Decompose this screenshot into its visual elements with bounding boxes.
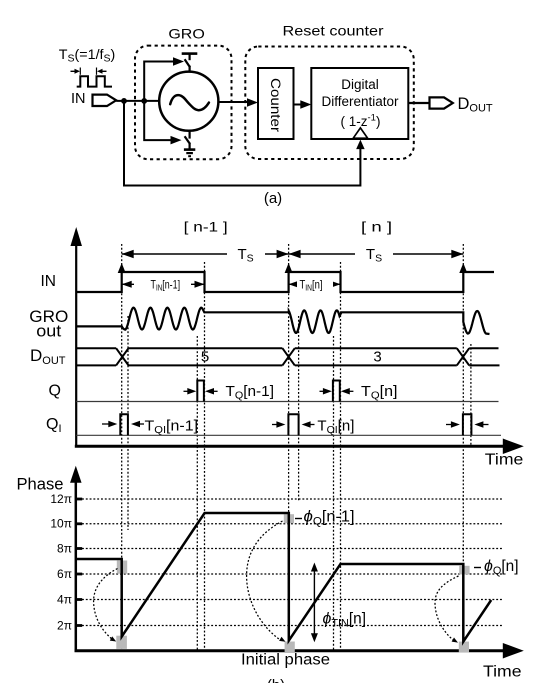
GRO oscillator circle U1 xyxy=(159,72,218,131)
svg-text:[ n-1 ]: [ n-1 ] xyxy=(184,219,228,235)
TQI[n] arrows and label xyxy=(272,418,354,437)
phiQ[n] label xyxy=(474,558,519,577)
svg-text:ϕQ[n-1]: ϕQ[n-1] xyxy=(304,509,355,528)
TQ[n-1] arrows and label xyxy=(184,383,275,402)
TS dimension arrow period n xyxy=(289,246,464,265)
GRO dashed box xyxy=(135,46,232,160)
svg-text:Phase: Phase xyxy=(17,475,64,494)
DOUT bus lines xyxy=(76,348,499,365)
supply T bar xyxy=(182,54,198,61)
svg-text:IN: IN xyxy=(41,273,57,290)
svg-text:10π: 10π xyxy=(50,517,72,531)
svg-text:ϕQ[n]: ϕQ[n] xyxy=(484,558,519,577)
IN label xyxy=(71,91,86,107)
output wire xyxy=(408,102,429,104)
TIN[n] dimension xyxy=(289,277,341,292)
svg-text:12π: 12π xyxy=(50,492,72,506)
Phase axis xyxy=(17,466,82,651)
svg-text:TQ[n-1]: TQ[n-1] xyxy=(226,383,275,402)
wire node up to top switch xyxy=(144,57,184,101)
DOUT bus crossings xyxy=(116,348,469,365)
svg-text:[ n ]: [ n ] xyxy=(361,219,392,235)
ground xyxy=(184,150,195,157)
Initial phase label xyxy=(241,652,330,669)
svg-text:3: 3 xyxy=(373,349,381,366)
node at IN (feedback tap) xyxy=(121,98,127,104)
svg-text:TQI[n-1]: TQI[n-1] xyxy=(145,418,199,437)
phase y-axis labels xyxy=(50,492,72,633)
wire node down to bottom switch xyxy=(144,101,181,144)
QI pulse n+1 arrows xyxy=(446,421,489,428)
svg-text:(a): (a) xyxy=(264,190,282,207)
svg-text:Initial phase: Initial phase xyxy=(241,652,330,669)
phase grid horizontal dotted lines xyxy=(82,499,502,626)
reset arc n-1 xyxy=(94,569,118,640)
timing y-axis xyxy=(70,227,82,446)
phase time axis xyxy=(75,643,524,681)
Reset counter label xyxy=(283,23,384,39)
DOUT label xyxy=(458,95,493,115)
IN waveform xyxy=(76,263,494,292)
svg-text:4π: 4π xyxy=(57,592,72,606)
period label [n-1] xyxy=(184,219,228,235)
svg-text:5: 5 xyxy=(201,349,209,366)
svg-text:Time: Time xyxy=(483,664,522,681)
TQI[n-1] arrows and label xyxy=(102,418,198,437)
bottom gating switch xyxy=(185,131,190,149)
TS(=1/fS) label xyxy=(59,47,115,65)
IN input buffer xyxy=(93,95,117,106)
QI baseline xyxy=(76,434,501,436)
dotted event verticals xyxy=(122,244,471,651)
period label [n] xyxy=(361,219,392,235)
svg-text:8π: 8π xyxy=(57,541,72,555)
svg-text:Q: Q xyxy=(49,383,61,400)
phase y-axis ticks xyxy=(77,499,82,626)
Q pulse n-1 xyxy=(197,381,204,402)
Counter box xyxy=(258,68,294,139)
Q row label xyxy=(49,383,61,400)
DOUT value 3 xyxy=(373,349,381,366)
GRO label xyxy=(168,26,205,42)
wire IN to oscillator xyxy=(116,100,159,102)
timing time axis xyxy=(75,439,524,469)
svg-text:TIN[n-1]: TIN[n-1] xyxy=(151,277,181,292)
TIN[n-1] dimension xyxy=(122,277,205,292)
svg-text:Counter: Counter xyxy=(268,78,283,133)
phase sample markers (gray) xyxy=(116,514,469,653)
wire Counter to Digital Differentiator xyxy=(294,100,312,109)
node inside GRO box xyxy=(141,98,147,104)
svg-text:Differentiator: Differentiator xyxy=(321,94,399,109)
svg-text:TIN[n]: TIN[n] xyxy=(300,277,323,292)
DOUT row label xyxy=(30,346,66,367)
top gating switch xyxy=(185,59,190,72)
wire oscillator to Counter xyxy=(218,98,258,107)
(a) caption xyxy=(264,190,282,207)
QI pulse n xyxy=(288,414,298,435)
GRO out waveform xyxy=(76,308,489,334)
(b) caption xyxy=(267,677,285,683)
Digital Differentiator box xyxy=(311,68,408,139)
phiQ[n-1] label xyxy=(295,509,355,528)
QI pulse n+1 xyxy=(463,414,472,435)
svg-text:GRO: GRO xyxy=(168,26,205,42)
svg-text:(b): (b) xyxy=(267,677,285,683)
TS dimension arrow period n-1 xyxy=(122,246,289,265)
sampling pulse train icon xyxy=(71,68,113,87)
GRO out row label xyxy=(29,308,68,341)
phiTIN[n] label xyxy=(323,611,367,630)
svg-text:6π: 6π xyxy=(57,567,72,581)
DOUT value 5 xyxy=(201,349,209,366)
reset arc n xyxy=(247,521,283,640)
svg-text:Reset counter: Reset counter xyxy=(283,23,384,39)
phase waveform xyxy=(76,513,491,642)
Reset counter dashed box xyxy=(245,47,413,160)
TQ[n] arrows and label xyxy=(320,383,398,402)
QI pulse n-1 xyxy=(120,414,128,435)
svg-text:out: out xyxy=(36,323,61,341)
Q baseline xyxy=(76,401,498,403)
svg-text:TQ[n]: TQ[n] xyxy=(361,383,398,402)
phiTIN[n] double arrow xyxy=(311,563,318,643)
Q pulse n xyxy=(333,381,340,402)
reset arc n+1 xyxy=(435,576,459,641)
reset caret input on differentiator xyxy=(353,128,367,149)
output buffer xyxy=(430,97,453,108)
QI row label xyxy=(46,416,62,435)
svg-text:IN: IN xyxy=(71,91,86,107)
svg-text:Time: Time xyxy=(485,452,524,469)
svg-text:Digital: Digital xyxy=(341,77,379,92)
svg-text:2π: 2π xyxy=(57,618,72,632)
IN row label xyxy=(41,273,57,290)
feedback wire from IN node to differentiator xyxy=(124,101,360,186)
